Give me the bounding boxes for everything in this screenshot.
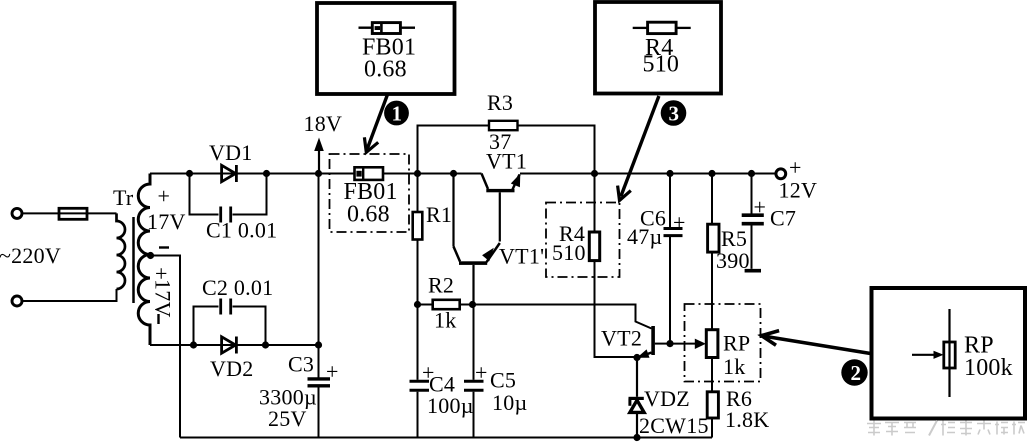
wire R3 to rail	[518, 126, 595, 174]
wire top rail left segment	[150, 173, 482, 175]
dashed box R4	[546, 203, 620, 278]
transistor VT1	[482, 174, 521, 242]
svg-text:VD2: VD2	[210, 356, 254, 381]
svg-text:2: 2	[851, 361, 862, 385]
svg-text:1: 1	[392, 102, 403, 126]
wire R3 branch	[418, 126, 490, 174]
resistor R4	[589, 174, 637, 358]
svg-text:VDZ: VDZ	[644, 386, 690, 411]
node VT2 base	[666, 340, 673, 347]
svg-text:R3: R3	[487, 90, 513, 115]
svg-text:12V: 12V	[779, 178, 818, 203]
svg-text:1k: 1k	[723, 354, 746, 379]
wire 18V arrow	[318, 149, 320, 174]
svg-text:3: 3	[669, 102, 680, 126]
terminal input bottom	[12, 296, 22, 306]
callout 1 fusible resistor symbol	[359, 23, 416, 34]
terminal output	[776, 169, 786, 179]
node R5 top	[708, 170, 715, 177]
arrow callout 2	[762, 331, 871, 354]
svg-text:510: 510	[552, 240, 586, 265]
resistor R3	[489, 121, 518, 130]
wire R2 to VT2 collector	[473, 305, 652, 329]
terminal input top	[12, 208, 22, 218]
svg-text:+: +	[754, 195, 767, 220]
label - upper secondary	[159, 246, 169, 248]
svg-text:510: 510	[643, 52, 680, 78]
resistor R5	[708, 174, 719, 330]
transistor VT2	[637, 326, 670, 358]
svg-text:+: +	[789, 155, 802, 180]
callout box 2	[872, 288, 1026, 419]
svg-text:25V: 25V	[268, 406, 307, 431]
node R2 left	[414, 301, 421, 308]
callout box 3	[595, 2, 721, 94]
svg-text:+: +	[673, 210, 686, 235]
fusible resistor FB01	[355, 167, 384, 180]
node R2 right	[469, 301, 476, 308]
transformer Tr core	[132, 217, 135, 303]
wire 18V riser	[318, 174, 320, 378]
svg-text:2CW15: 2CW15	[639, 413, 709, 438]
diode VD1	[222, 165, 237, 182]
svg-text:100k: 100k	[964, 355, 1013, 381]
wire wiper to RP	[670, 343, 698, 345]
circled number 3	[661, 100, 687, 126]
svg-text:+: +	[326, 359, 339, 384]
capacitor C6	[664, 174, 683, 344]
node C2 left	[190, 341, 197, 348]
zener VDZ	[629, 358, 645, 438]
label - lower secondary rotated	[157, 314, 159, 324]
svg-text:VD1: VD1	[209, 140, 253, 165]
svg-text:1.8K: 1.8K	[725, 407, 769, 432]
node C7 top	[748, 170, 755, 177]
svg-text:0.68: 0.68	[364, 57, 407, 83]
circled number 1	[384, 101, 409, 126]
svg-text:17V: 17V	[151, 279, 176, 318]
resistor R2	[418, 300, 473, 309]
wire input bottom	[22, 289, 117, 301]
node VT2 emitter	[633, 354, 640, 361]
transformer Tr primary winding	[117, 213, 126, 289]
svg-text:VT1: VT1	[486, 149, 527, 174]
svg-text:1k: 1k	[434, 308, 457, 333]
diode VD2	[222, 337, 237, 354]
resistor R6	[707, 392, 718, 438]
wire VT1 prime collector	[452, 174, 454, 247]
arrow callout 3	[618, 96, 659, 201]
wire input top	[22, 212, 117, 214]
node C6 top	[666, 170, 673, 177]
svg-text:+: +	[158, 184, 171, 209]
svg-text:C1 0.01: C1 0.01	[206, 218, 277, 243]
node center tap	[147, 252, 154, 259]
arrow callout 1	[364, 95, 387, 153]
svg-text:10µ: 10µ	[492, 390, 527, 415]
resistor R1	[413, 174, 423, 305]
svg-text:Tr: Tr	[113, 185, 134, 210]
svg-text:+: +	[475, 360, 488, 385]
capacitor C2	[194, 299, 266, 346]
svg-text:C3: C3	[288, 352, 314, 377]
capacitor C1	[190, 174, 267, 223]
callout box 1	[317, 3, 455, 94]
svg-text:R2: R2	[428, 273, 454, 298]
circled number 2	[841, 359, 867, 385]
watermark	[867, 421, 1025, 436]
svg-text:~220V: ~220V	[0, 243, 61, 268]
wire secondary lower to VD2 line	[150, 344, 319, 346]
svg-text:R1: R1	[426, 202, 452, 227]
capacitor C7	[742, 174, 764, 271]
dashed box RP	[685, 304, 761, 382]
capacitor C4	[410, 305, 430, 438]
node VDZ bottom	[633, 434, 640, 441]
potentiometer RP	[706, 330, 718, 392]
capacitor C5	[464, 305, 484, 438]
wire center tap	[151, 256, 181, 438]
svg-text:VT1': VT1'	[499, 244, 544, 269]
svg-text:18V: 18V	[304, 111, 343, 136]
capacitor C3	[308, 379, 331, 438]
svg-text:0.68: 0.68	[347, 202, 390, 228]
svg-text:C7: C7	[770, 206, 796, 231]
dashed box FB01	[330, 154, 410, 232]
svg-text:C5: C5	[490, 368, 516, 393]
svg-text:47µ: 47µ	[627, 224, 662, 249]
svg-text:100µ: 100µ	[427, 393, 474, 418]
node 18V junction	[315, 170, 322, 177]
node VT1 prime collector	[450, 170, 457, 177]
wire bottom rail	[180, 437, 712, 439]
wire top rail right segment	[520, 173, 776, 175]
callout 2 potentiometer symbol	[912, 309, 955, 397]
svg-text:RP: RP	[723, 331, 750, 356]
node VD1 anode	[186, 170, 193, 177]
node VD1 cathode	[263, 170, 270, 177]
node R1 top	[414, 170, 421, 177]
node C3 top	[315, 341, 322, 348]
svg-text:VT2: VT2	[601, 326, 642, 351]
node R4 top	[591, 170, 598, 177]
callout 3 resistor symbol	[633, 22, 691, 33]
node C2 right	[262, 341, 269, 348]
transformer Tr secondary winding	[138, 174, 150, 346]
svg-text:17V: 17V	[147, 209, 186, 234]
transistor VT1 prime	[454, 243, 500, 305]
fuse FU	[59, 208, 87, 219]
svg-text:C2 0.01: C2 0.01	[202, 275, 273, 300]
